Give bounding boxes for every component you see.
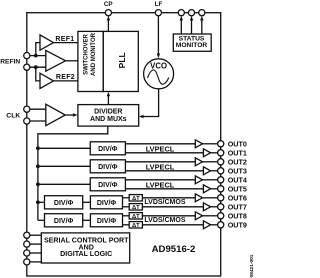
svg-text:DIV/Φ: DIV/Φ <box>54 200 74 207</box>
box divider DIV0 <box>90 142 125 155</box>
svg-text:DIGITAL LOGIC: DIGITAL LOGIC <box>60 250 112 258</box>
box delay DT3A <box>129 195 142 201</box>
box divider DIV3B <box>90 196 122 209</box>
oscillator VCO <box>144 59 174 89</box>
wire LVPECL1 top output to OUT2 buffer <box>125 161 195 163</box>
wire LF pin down to VCO <box>157 16 160 59</box>
wire status monitor to status pin 3 <box>200 16 203 34</box>
pin circles <box>24 10 224 265</box>
node bus junction channel 2 <box>36 182 40 186</box>
buffer REF2 <box>40 73 54 88</box>
pin OUT3 <box>218 168 224 174</box>
svg-text:DIV/Φ: DIV/Φ <box>97 200 117 207</box>
wire DT3B to OUT7 buffer <box>142 206 203 208</box>
svg-text:08421-001: 08421-001 <box>249 254 255 277</box>
box delay DT4A <box>129 213 142 219</box>
wire DIV3B to delay DT3A <box>123 197 130 199</box>
pin OUT2 <box>218 159 224 165</box>
pin SERIAL1 <box>24 232 30 238</box>
buffer OUT6 <box>195 194 202 202</box>
svg-text:REFIN: REFIN <box>0 59 20 66</box>
svg-text:LVPECL: LVPECL <box>146 144 175 153</box>
buffer OUT8 <box>195 212 202 220</box>
svg-text:OUT5: OUT5 <box>228 184 247 193</box>
wire LVPECL2 top output to OUT4 buffer <box>125 179 195 181</box>
svg-text:LVPECL: LVPECL <box>146 162 175 171</box>
wire VCO output to divider with arrowhead <box>139 89 159 118</box>
svg-text:DIV/Φ: DIV/Φ <box>98 146 118 153</box>
pin CP <box>105 10 111 16</box>
box divider DIV3A <box>45 196 83 209</box>
box delay DT4B <box>129 222 142 228</box>
svg-text:OUT6: OUT6 <box>228 193 247 202</box>
pin OUT8 <box>218 213 224 219</box>
wire DT4B to OUT9 buffer <box>142 224 203 226</box>
buffer CLK differential <box>46 104 66 126</box>
svg-text:DIVIDER: DIVIDER <box>94 108 122 115</box>
svg-text:OUT9: OUT9 <box>228 220 247 229</box>
node bus junction channel 0 <box>36 146 40 150</box>
svg-text:CP: CP <box>104 1 113 8</box>
wire serial pin 3 to box <box>27 252 42 254</box>
svg-text:AND MONITOR: AND MONITOR <box>91 32 97 76</box>
svg-text:VCO: VCO <box>150 61 167 70</box>
svg-text:DIV/Φ: DIV/Φ <box>97 218 117 225</box>
svg-text:OUT1: OUT1 <box>228 148 247 157</box>
pin OUT1 <box>218 150 224 156</box>
wire REFIN buffer output <box>66 60 78 62</box>
wire DT3A to OUT6 buffer <box>142 197 195 199</box>
wire branch to REF1 buffer <box>36 43 40 56</box>
wire status monitor to status pin 2 <box>190 16 193 34</box>
wire REFIN- to input buffer <box>27 66 46 68</box>
output buffers and wires <box>195 140 217 229</box>
box SWITCHOVER AND MONITOR <box>78 31 103 91</box>
buffer REF1 <box>40 35 54 50</box>
buffer OUT3 <box>203 167 210 175</box>
wire status monitor to status pin 1 <box>180 16 183 34</box>
svg-text:REF2: REF2 <box>56 74 75 81</box>
box PLL <box>103 31 138 91</box>
box divider DIV2 <box>90 178 125 191</box>
pin OUT5 <box>218 186 224 192</box>
chip outline U1 (AD9516-2 package boundary) <box>27 13 221 276</box>
wire LVPECL2 bottom output to OUT5 buffer <box>125 188 203 190</box>
svg-text:DIV/Φ: DIV/Φ <box>98 164 118 171</box>
wire feedback divider to PLL with arrowhead <box>107 92 110 105</box>
pin REFIN- <box>24 64 30 70</box>
wire serial pin 4 to box <box>27 261 42 263</box>
pin STATUS3 <box>199 10 205 16</box>
pin SERIAL4 <box>24 259 30 265</box>
svg-text:ΔT: ΔT <box>132 205 140 211</box>
pin SERIAL3 <box>24 250 30 256</box>
pin OUT0 <box>218 141 224 147</box>
wire LVPECL0 bottom output to OUT1 buffer <box>125 152 203 154</box>
wire REF2 buffer output <box>54 80 78 82</box>
pin SERIAL2 <box>24 241 30 247</box>
svg-text:OUT8: OUT8 <box>228 211 247 220</box>
wire bus to divider DIV2 <box>38 183 90 185</box>
svg-text:MONITOR: MONITOR <box>176 42 208 49</box>
svg-text:LVPECL: LVPECL <box>146 180 175 189</box>
svg-text:OUT4: OUT4 <box>228 175 247 184</box>
pin OUT9 <box>218 222 224 228</box>
wire DIV3B to delay DT3B <box>123 206 130 208</box>
pin CLK+ <box>24 106 30 112</box>
wire LVPECL1 bottom output to OUT3 buffer <box>125 170 203 172</box>
pin STATUS2 <box>188 10 194 16</box>
wire REFIN+ to input buffer <box>27 55 46 57</box>
svg-text:LVDS/CMOS: LVDS/CMOS <box>144 199 185 206</box>
buffer OUT1 <box>203 149 210 157</box>
box divider DIV1 <box>90 160 125 173</box>
buffer OUT2 <box>195 158 202 166</box>
box DIVIDER AND MUXs <box>78 105 139 127</box>
wire DIV3A to DIV3B <box>83 201 91 203</box>
wire bus to divider DIV4A <box>38 219 45 221</box>
pin OUT6 <box>218 195 224 201</box>
pin REFIN+ <box>24 53 30 59</box>
pin STATUS1 <box>178 10 184 16</box>
box divider DIV4A <box>45 214 83 227</box>
node bus junction channel 1 <box>36 164 40 168</box>
buffer REFIN differential <box>46 50 66 71</box>
wire DT4A to OUT8 buffer <box>142 215 195 217</box>
wire LVPECL0 top output to OUT0 buffer <box>125 143 195 145</box>
svg-text:OUT7: OUT7 <box>228 202 247 211</box>
wire CLK buffer to divider with arrowhead <box>65 113 77 116</box>
wire bus to divider DIV0 <box>38 147 90 149</box>
svg-text:AD9516-2: AD9516-2 <box>152 244 196 255</box>
box SERIAL CONTROL PORT AND DIGITAL LOGIC <box>41 233 129 263</box>
pin CLK- <box>24 118 30 124</box>
wire serial pin 2 to box <box>27 243 42 245</box>
wire REF1 buffer output <box>54 42 78 44</box>
svg-text:DIV/Φ: DIV/Φ <box>98 182 118 189</box>
wire branch to REF2 buffer <box>36 67 40 81</box>
wire DIV4A to DIV4B <box>83 219 91 221</box>
svg-text:PLL: PLL <box>117 52 127 68</box>
svg-text:OUT2: OUT2 <box>228 157 247 166</box>
wire CLK+ to CLK buffer <box>27 108 46 110</box>
svg-text:OUT0: OUT0 <box>228 139 247 148</box>
svg-text:LVDS/CMOS: LVDS/CMOS <box>144 217 185 224</box>
svg-text:REF1: REF1 <box>55 36 74 43</box>
svg-text:ΔT: ΔT <box>132 223 140 229</box>
pin OUT7 <box>218 204 224 210</box>
svg-text:CLK: CLK <box>6 113 20 120</box>
buffer OUT4 <box>195 176 202 184</box>
svg-text:DIV/Φ: DIV/Φ <box>54 218 74 225</box>
wire CLK- to CLK buffer <box>27 120 46 122</box>
svg-text:ΔT: ΔT <box>132 214 140 220</box>
wire DIV4B to delay DT4B <box>123 224 130 226</box>
buffer OUT0 <box>195 140 202 148</box>
svg-text:OUT3: OUT3 <box>228 166 247 175</box>
svg-text:LF: LF <box>155 1 163 8</box>
box divider DIV4B <box>90 214 122 227</box>
pin OUT4 <box>218 177 224 183</box>
buffer OUT7 <box>203 203 210 211</box>
node bus junction channel 3 <box>36 200 40 204</box>
wire DIV4B to delay DT4A <box>123 215 130 217</box>
svg-text:AND MUXs: AND MUXs <box>90 116 127 123</box>
buffer OUT5 <box>203 185 210 193</box>
node junction dot REFIN- <box>34 65 38 69</box>
svg-text:SWITCHOVER: SWITCHOVER <box>83 34 89 75</box>
wire bus to divider DIV3A <box>38 201 45 203</box>
wire clock distribution bus from divider <box>38 126 108 220</box>
VCO sine wave symbol <box>148 70 169 84</box>
node junction dot REFIN+ <box>34 54 38 58</box>
box STATUS MONITOR <box>173 34 211 51</box>
wire serial pin 1 to box <box>27 234 42 236</box>
pin LF <box>155 10 161 16</box>
svg-text:ΔT: ΔT <box>132 196 140 202</box>
buffer OUT9 <box>203 221 210 229</box>
wire bus to divider DIV1 <box>38 165 90 167</box>
box delay DT3B <box>129 204 142 210</box>
wire CP arrow from PLL top to CP pin <box>107 16 110 32</box>
